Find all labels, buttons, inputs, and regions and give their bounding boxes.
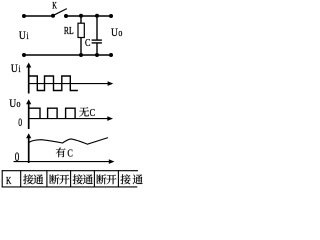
node: output top terminal (109, 14, 113, 18)
node: input top terminal (22, 14, 26, 18)
Ui square wave (29, 76, 78, 91)
table top border (2, 170, 138, 172)
svg-text:0: 0 (18, 117, 22, 130)
svg-text:K: K (52, 0, 57, 11)
label wu-C (without C) (79, 107, 95, 119)
table divider 2 (46, 170, 48, 187)
wire: switch to top-right terminal (66, 15, 111, 17)
node: junction below RL (79, 53, 83, 57)
label cell duan-kai 2 (open) (96, 174, 116, 184)
svg-text:0: 0 (15, 150, 20, 164)
table divider 5 (117, 170, 119, 187)
label cell jie-tong 3 (closed) (120, 174, 142, 184)
capacitor C top lead (96, 16, 98, 40)
switch K left contact (51, 14, 55, 18)
resistor RL body (78, 23, 84, 37)
svg-text:Uo: Uo (9, 97, 21, 110)
Uo smoothed wave with C (29, 138, 108, 145)
node: junction above RL (79, 14, 83, 18)
resistor RL top lead (80, 16, 82, 23)
wire: bottom rail (24, 54, 111, 56)
table divider 1 (20, 170, 22, 187)
label cell duan-kai 1 (open) (49, 174, 69, 184)
svg-text:Uo: Uo (111, 26, 123, 39)
Ui graph horizontal axis (28, 81, 113, 86)
you-C graph horizontal axis (14, 159, 115, 164)
switch K blade (54, 9, 67, 16)
Uo graph vertical axis (26, 99, 31, 129)
switch K right contact (64, 14, 68, 18)
table divider 3 (70, 170, 72, 187)
node: output bottom terminal (109, 53, 113, 57)
node: junction above C (95, 14, 99, 18)
wire: top-left to switch (24, 15, 53, 17)
resistor RL bottom lead (80, 38, 82, 56)
table left border (1, 170, 3, 187)
capacitor C bottom lead (96, 43, 98, 55)
svg-text:C: C (85, 38, 90, 49)
table divider 4 (93, 170, 95, 187)
capacitor C top plate (92, 39, 102, 41)
Uo graph baseline (28, 118, 108, 120)
svg-text:C: C (90, 108, 95, 119)
table bottom border (2, 186, 138, 188)
Uo pulse wave without C (29, 108, 75, 118)
node: input bottom terminal (22, 53, 26, 57)
you-C graph vertical axis (26, 133, 31, 163)
svg-text:Ui: Ui (11, 62, 21, 75)
svg-text:K: K (6, 175, 12, 187)
svg-text:Ui: Ui (19, 29, 29, 42)
svg-text:C: C (67, 149, 72, 160)
capacitor C bottom plate (92, 42, 102, 44)
node: junction below C (95, 53, 99, 57)
Uo baseline arrowhead (107, 116, 113, 121)
label cell jie-tong 2 (closed) (73, 174, 93, 184)
svg-text:RL: RL (64, 25, 74, 36)
Ui graph vertical axis (26, 63, 31, 94)
label cell jie-tong 1 (closed) (23, 174, 43, 184)
label you-C (with C) (56, 147, 73, 159)
